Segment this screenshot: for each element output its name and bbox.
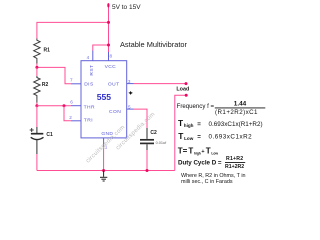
svg-text:0.693xC1x(R1+R2): 0.693xC1x(R1+R2) bbox=[209, 121, 263, 128]
node: THR/TRI branch junction bbox=[63, 104, 66, 107]
svg-text:0.693xC1xR2: 0.693xC1xR2 bbox=[209, 134, 253, 141]
svg-text:1.44: 1.44 bbox=[234, 100, 247, 107]
formula: duty cycle bbox=[178, 156, 245, 170]
svg-text:Load: Load bbox=[176, 87, 189, 93]
wire: GND pin to rail bbox=[103, 146, 105, 171]
svg-text:2: 2 bbox=[69, 115, 72, 120]
svg-text:milli sec., C in Farads: milli sec., C in Farads bbox=[181, 179, 233, 185]
wire: top rail to R1 bbox=[37, 22, 109, 38]
svg-text:C1: C1 bbox=[46, 132, 53, 138]
svg-text:VCC: VCC bbox=[105, 64, 116, 70]
pin 3 OUT lead bbox=[127, 83, 134, 85]
wire: C1 bottom to ground rail bbox=[36, 154, 38, 171]
svg-text:5: 5 bbox=[128, 104, 131, 109]
wire: R2/C1 junction to THR pin 6 bbox=[37, 105, 71, 107]
svg-text:high: high bbox=[194, 151, 201, 155]
svg-text:Low: Low bbox=[211, 151, 218, 155]
wire: load return riser bbox=[175, 95, 186, 170]
node: load return terminal bbox=[185, 94, 188, 97]
svg-text:CON: CON bbox=[109, 109, 121, 115]
pin 8 VCC lead bbox=[108, 52, 110, 61]
svg-text:Duty Cycle D =: Duty Cycle D = bbox=[178, 159, 222, 166]
formula: T high bbox=[178, 118, 263, 128]
svg-text:R1+R2: R1+R2 bbox=[226, 156, 243, 162]
formula: T low bbox=[178, 131, 252, 141]
wire: bottom ground rail bbox=[37, 170, 175, 172]
wire: R1/R2 junction to DIS pin 7 bbox=[37, 67, 71, 83]
wire: stub to VCC pin 8 bbox=[108, 45, 110, 52]
resistor R2 bbox=[34, 76, 40, 103]
svg-text:Frequency f =: Frequency f = bbox=[177, 103, 215, 110]
svg-text:Low: Low bbox=[184, 136, 194, 141]
svg-text:=: = bbox=[197, 133, 201, 140]
svg-text:DIS: DIS bbox=[84, 82, 94, 88]
node: ground rail junction bbox=[102, 169, 105, 172]
wire: branch to RST pin 4 bbox=[93, 45, 109, 51]
capacitor C1 (polarized) bbox=[30, 127, 44, 154]
node: R2/C1 junction bbox=[35, 104, 38, 107]
node: VCC/RST branch junction bbox=[107, 44, 110, 47]
formula: total period bbox=[178, 147, 219, 156]
node: R1/R2 junction bbox=[35, 66, 38, 69]
wire: junction to R2 top bbox=[36, 67, 38, 76]
pin 1 GND lead bbox=[103, 138, 105, 146]
pin 4 RST lead bbox=[92, 51, 94, 61]
ground symbol bbox=[100, 171, 107, 182]
svg-text:5V to 15V: 5V to 15V bbox=[112, 4, 141, 11]
svg-text:+: + bbox=[201, 149, 204, 155]
wire: V+ vertical drop from supply terminal to VCC branch bbox=[108, 5, 110, 45]
svg-text:T=: T= bbox=[178, 147, 188, 156]
wire: C2 bottom to ground rail bbox=[146, 150, 148, 171]
svg-text:555: 555 bbox=[97, 92, 112, 102]
svg-text:6: 6 bbox=[70, 100, 73, 105]
svg-text:3: 3 bbox=[128, 79, 131, 84]
wire: OUT pin to load bbox=[134, 83, 187, 85]
svg-text:RST: RST bbox=[89, 65, 95, 76]
svg-text:0.01uf: 0.01uf bbox=[156, 141, 168, 145]
wire: R1 bottom to junction bbox=[36, 64, 38, 68]
svg-text:high: high bbox=[184, 123, 194, 128]
pin 6 THR lead bbox=[71, 105, 81, 107]
svg-text:R1+2R2: R1+2R2 bbox=[225, 164, 244, 170]
svg-text:T: T bbox=[188, 147, 193, 156]
svg-text:R2: R2 bbox=[42, 82, 49, 88]
node: OUT load terminal bbox=[185, 82, 188, 85]
capacitor C2 bbox=[140, 128, 154, 150]
wire: junction down to C1 bbox=[36, 106, 38, 127]
pin 5 CON lead bbox=[127, 108, 134, 110]
svg-text:THR: THR bbox=[84, 104, 95, 110]
wire: R2 bottom to junction bbox=[36, 103, 38, 106]
svg-text:OUT: OUT bbox=[108, 82, 120, 88]
node: supply terminal dot bbox=[107, 3, 109, 7]
node: C2 rail junction bbox=[146, 169, 149, 172]
wire: branch down to TRI pin 2 bbox=[64, 106, 71, 121]
svg-text:C2: C2 bbox=[150, 130, 157, 136]
formula: frequency bbox=[177, 100, 266, 116]
node: top rail junction bbox=[107, 21, 110, 24]
svg-text:=: = bbox=[197, 121, 201, 128]
pin 2 TRI lead bbox=[71, 120, 81, 122]
wire: CON pin to C2 bbox=[134, 109, 148, 128]
svg-text:4: 4 bbox=[87, 55, 90, 60]
svg-text:Astable Multivibrator: Astable Multivibrator bbox=[120, 40, 187, 49]
note: units bbox=[181, 173, 246, 185]
svg-text:7: 7 bbox=[70, 77, 73, 82]
svg-text:T: T bbox=[206, 147, 211, 156]
op: IC U1 555 body bbox=[81, 61, 127, 138]
pin 7 DIS lead bbox=[71, 83, 81, 85]
svg-text:TRI: TRI bbox=[84, 118, 93, 124]
svg-text:8: 8 bbox=[110, 53, 113, 58]
svg-text:(R1+2R2)xC1: (R1+2R2)xC1 bbox=[215, 109, 258, 116]
star marker near OUT bbox=[128, 91, 133, 95]
resistor R1 bbox=[34, 39, 40, 64]
svg-text:R1: R1 bbox=[44, 47, 51, 53]
